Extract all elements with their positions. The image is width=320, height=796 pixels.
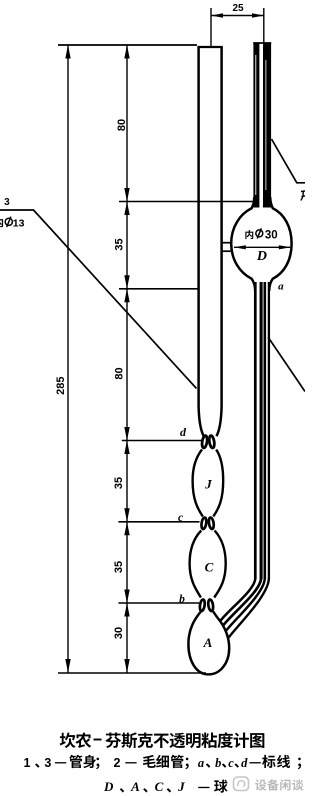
leader line to tube 1: [272, 139, 306, 183]
svg-text:35: 35: [113, 477, 125, 489]
svg-text:80: 80: [116, 119, 128, 131]
svg-text:30: 30: [265, 229, 278, 241]
mark d pinch and rings: [201, 435, 208, 448]
svg-text:C: C: [155, 779, 164, 794]
svg-text:J: J: [204, 477, 212, 492]
svg-text:b: b: [215, 756, 221, 770]
svg-text:c: c: [228, 756, 234, 770]
svg-text:1: 1: [24, 756, 31, 770]
svg-text:a: a: [278, 281, 284, 293]
bulb A: [188, 612, 229, 675]
svg-text:A: A: [130, 779, 140, 794]
chained dimension vertical line: [126, 45, 128, 673]
connecting stub between tube 3 and bulb D: [221, 242, 232, 244]
cut-off label at right edge: [301, 191, 305, 201]
bulb C right wall: [214, 531, 226, 598]
tube 1 upper right with capillary inside: [253, 43, 259, 208]
svg-text:C: C: [205, 560, 214, 575]
tube 3 right wall: [217, 47, 222, 436]
leader line for label 3: [0, 210, 197, 389]
dimension 285 vertical line: [67, 45, 69, 673]
tick line mark c level: [118, 521, 199, 523]
svg-text:285: 285: [55, 377, 67, 395]
bulb D right wall: [269, 197, 291, 291]
label inner diameter 13 (cut at left edge): [0, 217, 3, 227]
tube 3 top cap: [197, 46, 222, 48]
svg-text:c: c: [178, 512, 183, 524]
tube 2 capillary below bulb D: [254, 282, 257, 579]
svg-text:D: D: [103, 779, 114, 794]
tube 3 left wall: [199, 47, 204, 436]
svg-text:d: d: [241, 756, 248, 770]
svg-text:80: 80: [114, 367, 126, 379]
dimension 25 between tube centerlines: [210, 8, 212, 46]
tick line mark b level: [118, 602, 199, 604]
svg-text:3: 3: [44, 756, 51, 770]
bulb D left wall: [231, 197, 255, 291]
svg-text:3: 3: [4, 197, 10, 208]
title hyphen: [94, 739, 102, 741]
label inner diameter 30: [245, 230, 253, 239]
elbow bend of right tube into bulb A: [220, 578, 256, 622]
mark c rings: [201, 517, 207, 529]
caption title: [60, 732, 76, 748]
leader line to capillary 2: [268, 337, 305, 392]
tick line mark d level: [122, 440, 203, 442]
mark b rings: [199, 599, 205, 611]
svg-text:D: D: [256, 249, 267, 264]
svg-text:30: 30: [113, 627, 125, 639]
watermark text: [255, 779, 266, 790]
svg-text:b: b: [179, 594, 185, 606]
svg-text:J: J: [177, 779, 185, 794]
bottom extension line: [58, 672, 206, 674]
svg-text:A: A: [203, 635, 213, 650]
svg-text:d: d: [180, 425, 187, 439]
tick line bulb D bottom level: [119, 288, 200, 290]
bulb J left wall: [193, 450, 203, 517]
svg-text:13: 13: [13, 218, 25, 230]
bulb J right wall: [213, 450, 223, 517]
svg-text:2: 2: [114, 756, 121, 770]
watermark logo: [234, 777, 249, 791]
bulb D diameter dimension line: [234, 246, 290, 248]
svg-text:35: 35: [114, 238, 126, 250]
svg-text:a: a: [198, 756, 204, 770]
top extension line: [58, 44, 197, 46]
tick line bulb D top level: [119, 201, 253, 203]
bulb C left wall: [190, 531, 202, 598]
svg-text:35: 35: [113, 561, 125, 573]
svg-text:25: 25: [232, 3, 244, 14]
